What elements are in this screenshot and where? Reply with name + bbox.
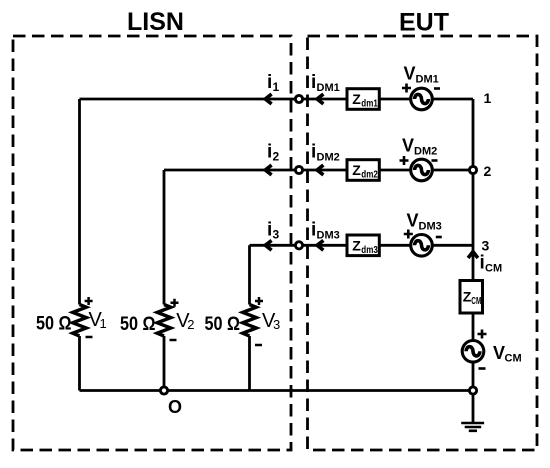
svg-text:i: i [267,142,272,163]
polarity - V2 [170,339,177,342]
svg-text:i: i [311,142,316,163]
node 2 on right vertical [469,166,476,173]
svg-text:1: 1 [273,80,280,94]
node: boundary row1 [295,95,302,102]
svg-text:DM2: DM2 [317,152,340,164]
svg-text:50 Ω: 50 Ω [120,314,156,335]
svg-text:50 Ω: 50 Ω [205,314,241,335]
svg-text:3: 3 [273,228,280,242]
svg-text:V: V [402,136,414,156]
arrow iCM (up) [468,252,478,258]
node O [160,387,167,394]
impedance box Zdm2 [347,160,379,181]
polarity + VCM [478,330,487,339]
svg-text:1: 1 [100,316,107,331]
node: boundary row3 [295,242,302,249]
svg-text:DM1: DM1 [416,74,439,86]
resistor R1 (50 ohm) zigzag [73,305,87,337]
svg-text:V: V [404,64,416,84]
svg-text:DM1: DM1 [317,82,340,94]
svg-text:Z: Z [352,162,361,178]
wire: left branch 2 vertical [163,170,166,391]
svg-text:DM3: DM3 [419,221,442,233]
svg-text:CM: CM [471,296,481,307]
node at ground branch [469,387,476,394]
svg-text:3: 3 [482,238,490,254]
arrow i3 (left) [265,240,271,250]
svg-text:i: i [267,220,272,241]
svg-text:CM: CM [485,263,502,275]
svg-text:50 Ω: 50 Ω [36,314,72,335]
impedance box Zdm3 [347,235,379,256]
svg-text:2: 2 [273,150,280,164]
wire: left branch 3 vertical [248,245,251,390]
wire: bottom bus [80,389,474,392]
polarity - V1 [86,336,93,339]
svg-text:1: 1 [484,90,492,106]
arrow i2 (left) [265,165,271,175]
AC source VDM2 [411,159,433,181]
resistor R2 (50 ohm) zigzag [157,305,171,337]
svg-text:2: 2 [187,317,194,332]
polarity - VCM [479,367,486,370]
arrow iDM1 (left) [317,94,323,104]
polarity - VDM1 [434,87,440,90]
arrow iDM3 (left) [317,240,323,250]
svg-text:Z: Z [352,91,361,107]
polarity - VDM3 [436,236,442,239]
polarity - VDM2 [432,159,438,162]
EUT dashed box [308,36,538,450]
polarity + VDM2 [400,156,409,165]
node: boundary row2 [295,166,302,173]
AC source VDM1 [411,88,433,110]
svg-text:V: V [407,211,419,231]
resistor R3 (50 ohm) zigzag [243,305,257,337]
arrow i1 (left) [265,94,271,104]
polarity + VDM3 [404,230,413,239]
svg-text:DM3: DM3 [317,230,340,242]
wire: left branch 1 vertical [78,99,81,391]
svg-text:DM2: DM2 [414,146,437,158]
impedance box Zdm1 [347,89,379,110]
svg-text:i: i [311,72,316,93]
svg-text:LISN: LISN [127,8,184,36]
wire: row 2 horizontal [164,169,473,172]
svg-text:Z: Z [352,237,361,253]
arrow iDM2 (left) [317,165,323,175]
svg-text:CM: CM [505,353,522,365]
AC source VDM3 [411,235,433,257]
polarity + V2 [171,299,179,307]
impedance box ZCM [460,281,483,314]
svg-text:2: 2 [484,163,492,179]
svg-text:V: V [493,343,505,363]
svg-text:i: i [267,72,272,93]
wire: row 3 horizontal [250,244,474,247]
svg-text:EUT: EUT [399,9,449,37]
wire: row 1 horizontal [80,98,474,101]
polarity + VDM1 [402,84,411,93]
svg-text:dm1: dm1 [361,99,378,110]
svg-text:i: i [311,220,316,241]
polarity - V3 [255,344,262,347]
polarity + V3 [255,297,263,305]
svg-text:i: i [480,253,485,274]
svg-text:dm2: dm2 [361,170,378,181]
svg-text:dm3: dm3 [361,245,378,256]
wire: right vertical (EUT) [472,99,475,422]
LISN dashed box [13,36,291,450]
polarity + V1 [85,297,93,305]
svg-text:3: 3 [273,317,280,332]
svg-text:O: O [168,397,182,417]
ground symbol [461,423,484,431]
AC source VCM [462,341,484,363]
